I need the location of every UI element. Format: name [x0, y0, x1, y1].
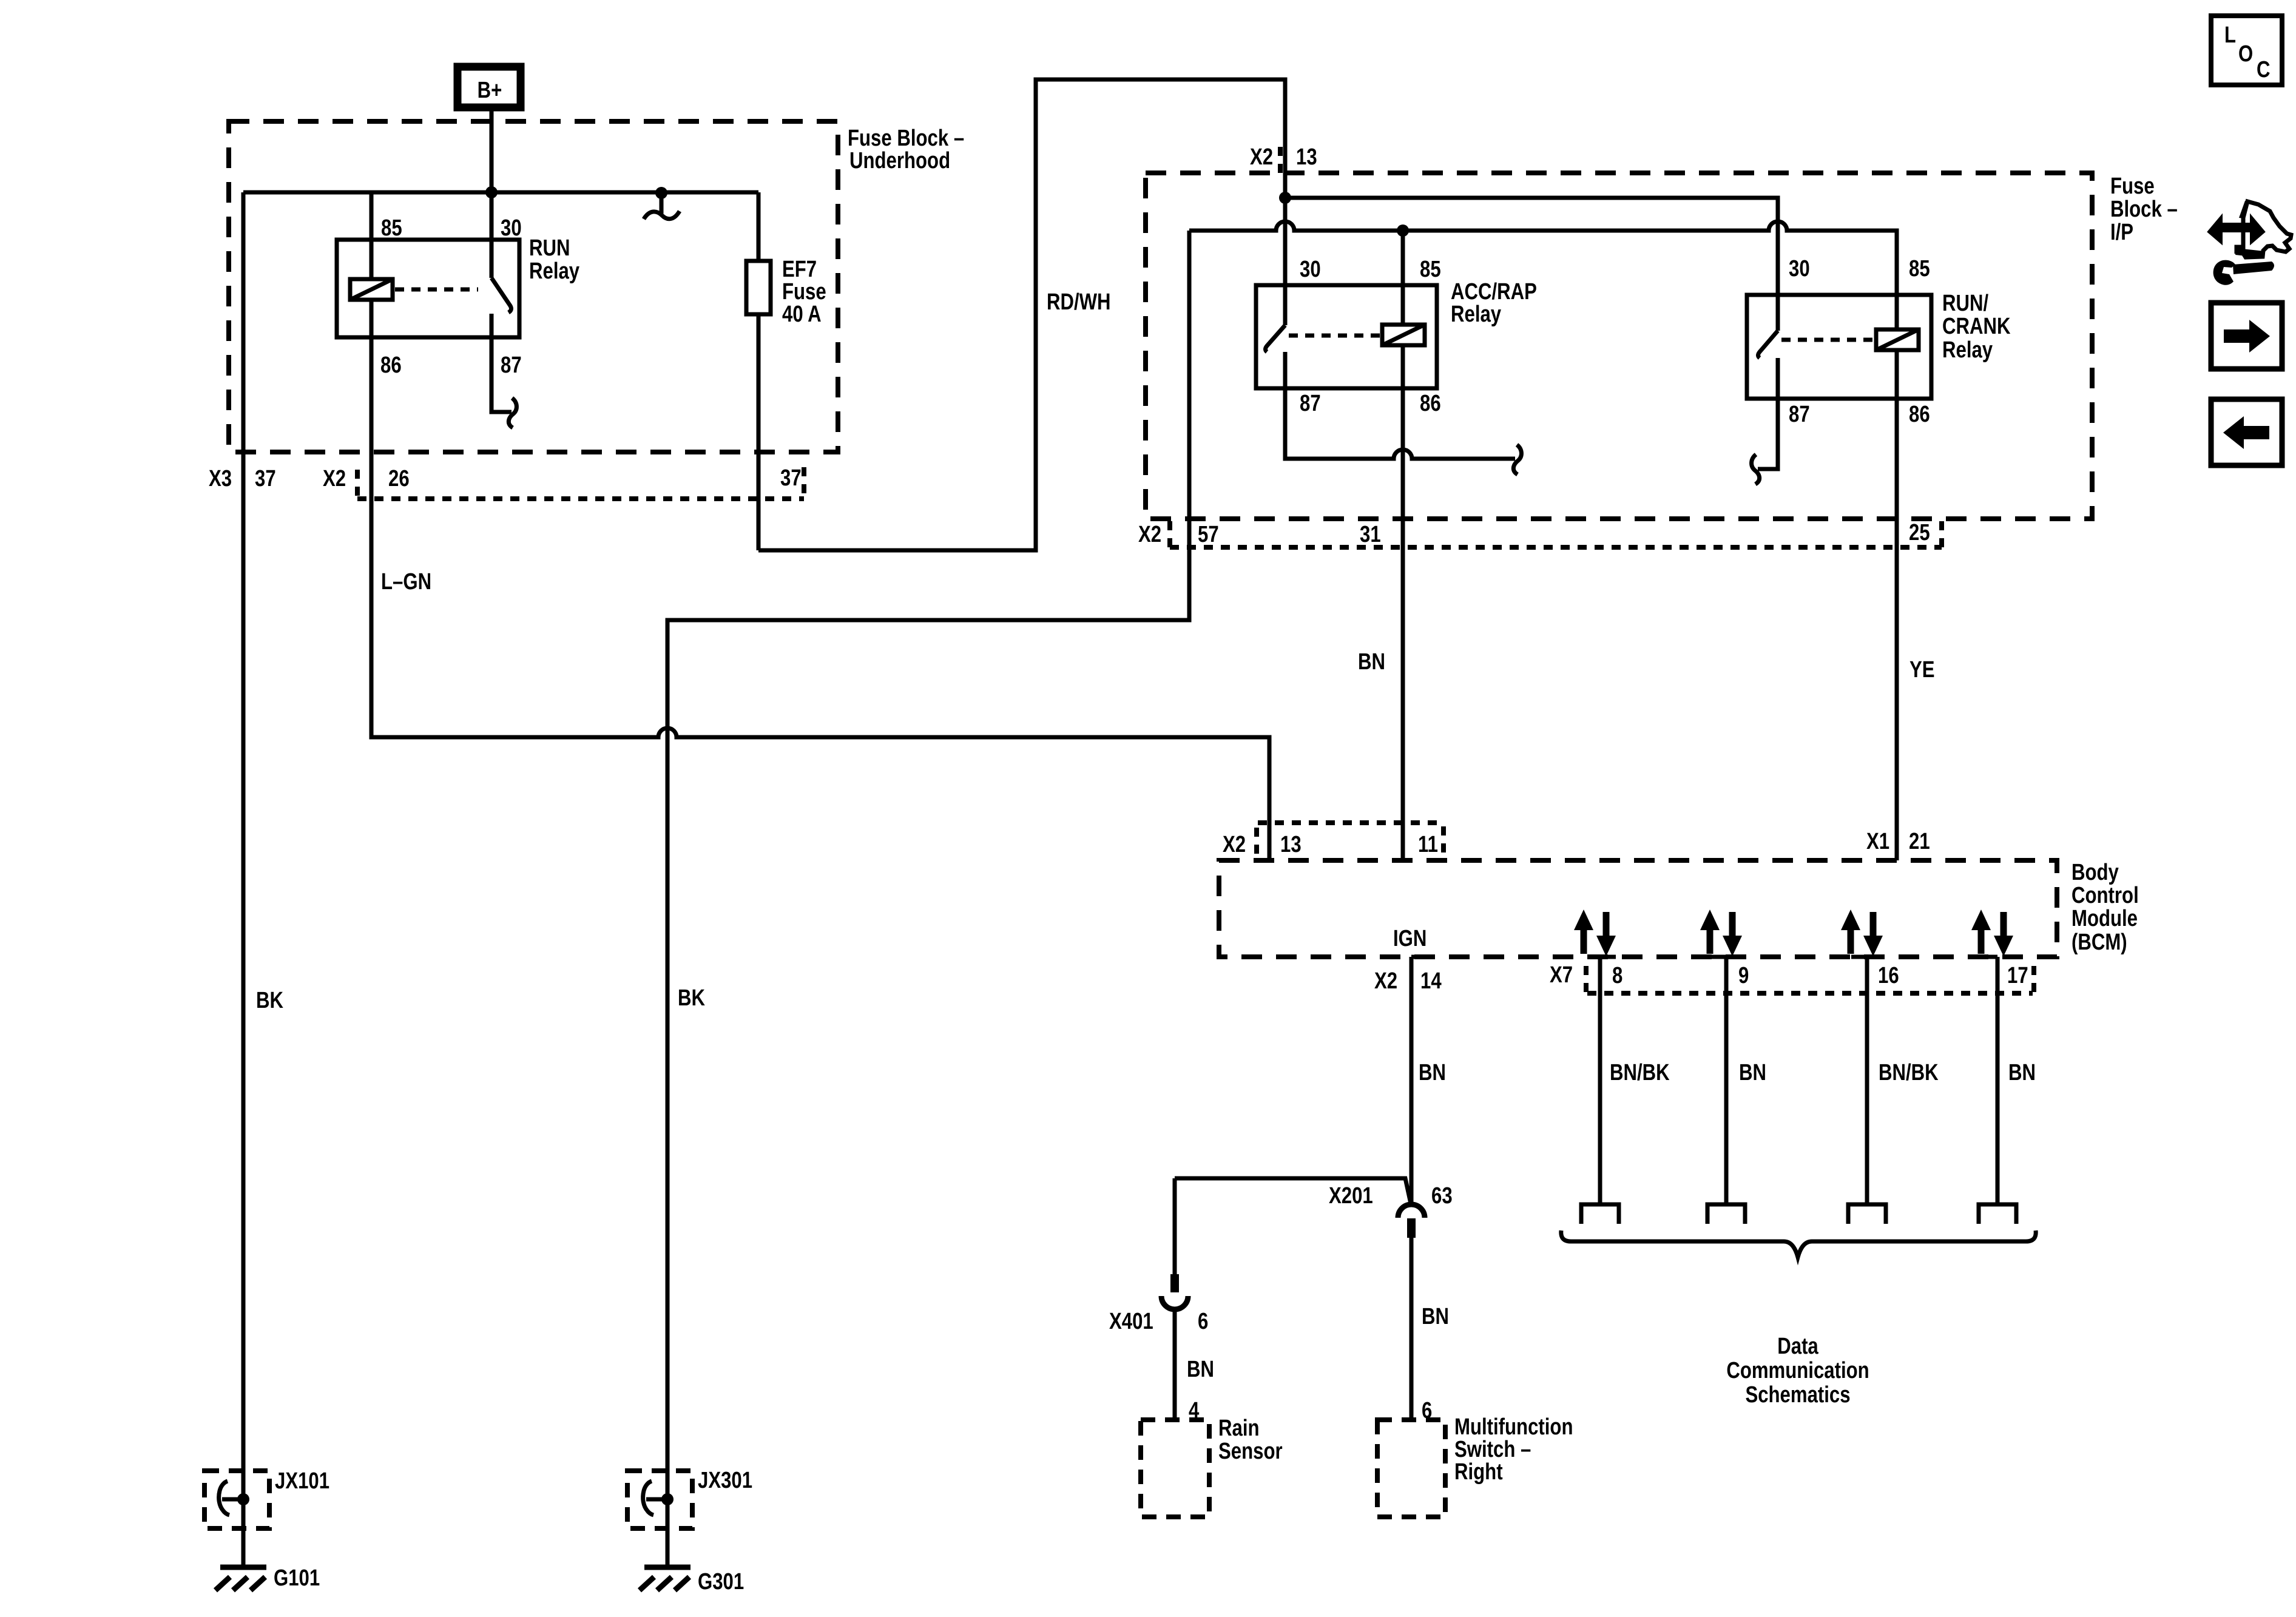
- terminal staple pin 17: [1979, 1204, 2016, 1224]
- svg-text:EF7: EF7: [782, 257, 817, 282]
- svg-text:X2: X2: [323, 466, 346, 491]
- svg-text:G301: G301: [698, 1569, 744, 1595]
- junction dot JX301: [661, 1493, 674, 1505]
- svg-text:C: C: [2257, 57, 2271, 83]
- svg-text:ACC/RAP: ACC/RAP: [1451, 279, 1537, 305]
- svg-text:Fuse: Fuse: [782, 279, 826, 305]
- svg-text:X1: X1: [1866, 829, 1889, 854]
- ground G301: [640, 1567, 690, 1590]
- wire bus B+ horizontal: [243, 191, 758, 195]
- svg-text:Relay: Relay: [1451, 302, 1502, 327]
- connector label X2 pin 57: [1138, 522, 1219, 547]
- svg-text:X2: X2: [1138, 522, 1161, 547]
- svg-text:Switch –: Switch –: [1454, 1437, 1531, 1462]
- connector X2 underhood dotted bracket: [357, 467, 804, 499]
- wire ACC relay pin 87 with hop and continuation curl: [1285, 352, 1521, 474]
- svg-text:BN: BN: [2008, 1060, 2036, 1085]
- component Rain Sensor dashed box: [1141, 1420, 1209, 1517]
- wire RUN/CRANK pin 87 with continuation curl: [1752, 358, 1778, 484]
- coil ACC/RAP relay: [1382, 325, 1425, 345]
- svg-text:CRANK: CRANK: [1942, 314, 2010, 339]
- svg-text:87: 87: [501, 353, 522, 378]
- svg-text:BN: BN: [1419, 1060, 1446, 1085]
- svg-text:85: 85: [381, 215, 402, 241]
- svg-text:B+: B+: [478, 78, 502, 103]
- legend LOC box: [2211, 16, 2282, 85]
- wire ACC relay pin 85: [1401, 231, 1405, 325]
- svg-text:30: 30: [1789, 256, 1810, 282]
- label ACC/RAP Relay: [1451, 279, 1537, 327]
- junction dot at B+ stem: [485, 186, 498, 198]
- wire branch down to X401: [1173, 1178, 1177, 1274]
- connector label X2 pin 26: [323, 466, 410, 491]
- svg-text:Communication: Communication: [1726, 1358, 1869, 1383]
- svg-text:16: 16: [1878, 963, 1899, 988]
- junction dot continuation tap: [655, 187, 667, 199]
- svg-text:87: 87: [1300, 391, 1321, 416]
- continuation tap stub and curl: [644, 193, 680, 219]
- splice clip JX101: [219, 1481, 241, 1515]
- junction dot JX101: [237, 1493, 249, 1505]
- connector label X2 pin 13 BCM: [1223, 832, 1302, 857]
- svg-text:26: 26: [388, 466, 410, 491]
- brace data communication group: [1561, 1230, 2036, 1257]
- fuse block IP dashed box: [1146, 173, 2092, 519]
- svg-text:Rain: Rain: [1218, 1416, 1260, 1441]
- svg-text:86: 86: [1909, 402, 1930, 427]
- svg-text:X401: X401: [1109, 1309, 1153, 1334]
- switch blade ACC/RAP relay: [1266, 325, 1286, 352]
- svg-text:21: 21: [1909, 829, 1930, 854]
- svg-text:17: 17: [2007, 963, 2028, 988]
- connector label X1 pin 21 BCM: [1866, 829, 1930, 854]
- svg-text:YE: YE: [1909, 657, 1935, 683]
- wire BCM X7 pin 8 with tick: [1600, 957, 1616, 1203]
- wire B+ feed down to junction: [490, 111, 494, 192]
- wire bus line2 inside IP with hops: [1189, 221, 1897, 329]
- svg-text:RUN/: RUN/: [1942, 291, 1988, 316]
- svg-text:85: 85: [1909, 256, 1930, 282]
- splice clip JX301: [643, 1481, 665, 1515]
- label RUN/CRANK Relay: [1942, 291, 2010, 363]
- switch blade RUN/CRANK relay: [1758, 331, 1778, 358]
- fuse block underhood dashed box: [229, 121, 838, 452]
- wire X201 to multifunction switch BN: [1410, 1238, 1414, 1420]
- svg-text:BN/BK: BN/BK: [1879, 1060, 1939, 1085]
- svg-text:57: 57: [1198, 522, 1219, 547]
- svg-text:(BCM): (BCM): [2071, 930, 2127, 955]
- label Multifunction Switch Right: [1454, 1414, 1573, 1485]
- relay RUN/CRANK dashed actuate link: [1781, 338, 1874, 342]
- relay RUN dashed actuate link: [395, 288, 478, 292]
- svg-text:8: 8: [1612, 963, 1622, 988]
- wire RUN relay pin 87 with continuation curl: [491, 314, 516, 428]
- svg-text:31: 31: [1360, 522, 1381, 547]
- svg-text:X201: X201: [1329, 1183, 1373, 1209]
- data arrows pair pin 9: [1700, 910, 1742, 956]
- svg-text:X7: X7: [1550, 962, 1573, 988]
- svg-text:86: 86: [1420, 391, 1441, 416]
- svg-text:Right: Right: [1454, 1459, 1503, 1485]
- svg-text:L–GN: L–GN: [381, 569, 431, 595]
- label RUN Relay: [529, 235, 580, 284]
- fuse EF7 40A: [746, 192, 771, 550]
- svg-text:87: 87: [1789, 402, 1810, 427]
- svg-text:30: 30: [1300, 257, 1321, 282]
- component Multifunction Switch Right dashed box: [1377, 1420, 1445, 1517]
- svg-text:RD/WH: RD/WH: [1047, 289, 1111, 315]
- connector label X2 pin 13 IP top: [1250, 144, 1317, 173]
- svg-text:6: 6: [1198, 1309, 1208, 1334]
- wire RUN relay pin 85: [370, 192, 374, 279]
- svg-text:IGN: IGN: [1393, 926, 1427, 951]
- relay ACC/RAP box: [1256, 285, 1437, 388]
- svg-text:13: 13: [1280, 832, 1302, 857]
- svg-text:X2: X2: [1374, 968, 1397, 994]
- connector X401 pin 6 inline: [1161, 1274, 1188, 1309]
- svg-text:BK: BK: [256, 988, 283, 1013]
- wire bus line1 inside IP: [1285, 198, 1778, 331]
- wire branch to rain sensor: [1175, 1178, 1411, 1206]
- svg-text:Fuse Block –: Fuse Block –: [848, 126, 964, 151]
- svg-text:13: 13: [1296, 144, 1317, 170]
- svg-text:Block –: Block –: [2110, 197, 2178, 222]
- label EF7 Fuse 40 A: [782, 257, 826, 327]
- svg-text:25: 25: [1909, 520, 1930, 545]
- svg-text:BN: BN: [1187, 1357, 1214, 1382]
- svg-text:14: 14: [1420, 968, 1442, 994]
- label Fuse Block - I/P: [2110, 174, 2178, 245]
- junction dot line1 at X2-13 entry: [1279, 192, 1291, 204]
- svg-text:63: 63: [1431, 1183, 1453, 1209]
- module BCM dashed box: [1219, 860, 2057, 957]
- svg-text:11: 11: [1418, 832, 1438, 857]
- connector X2 IP bottom dotted bracket: [1170, 521, 1942, 547]
- wire X401 to rain sensor BN: [1173, 1311, 1177, 1420]
- splice JX101 dashed box: [204, 1471, 269, 1528]
- coil RUN relay: [350, 279, 393, 300]
- svg-text:X2: X2: [1223, 832, 1246, 857]
- wire X2-57 to ground run with corner: [667, 231, 1189, 1567]
- svg-text:Body: Body: [2071, 860, 2119, 885]
- svg-text:X2: X2: [1250, 144, 1273, 170]
- terminal staple pin 16: [1848, 1204, 1886, 1224]
- wire RUN relay pin 86 L-GN with hop over X2-57 wire: [371, 300, 1269, 860]
- button arrow right: [2211, 303, 2282, 369]
- data arrows pair pin 16: [1841, 910, 1883, 956]
- svg-text:85: 85: [1420, 257, 1441, 282]
- svg-text:Underhood: Underhood: [849, 148, 950, 174]
- svg-text:Control: Control: [2071, 883, 2139, 908]
- connector label X2 pin 14 BCM bottom: [1374, 957, 1442, 994]
- svg-text:Relay: Relay: [529, 258, 580, 284]
- svg-text:37: 37: [255, 466, 276, 491]
- svg-text:RUN: RUN: [529, 235, 570, 261]
- svg-text:Relay: Relay: [1942, 337, 1993, 363]
- svg-text:Multifunction: Multifunction: [1454, 1414, 1573, 1440]
- power symbol B+: [458, 67, 521, 107]
- connector X2 BCM top dotted bracket: [1257, 823, 1444, 854]
- svg-text:40 A: 40 A: [782, 302, 822, 327]
- data arrows pair pin 17: [1971, 910, 2013, 956]
- svg-text:BN/BK: BN/BK: [1610, 1060, 1670, 1085]
- icon diagnostic wrench with double arrow: [2209, 201, 2291, 285]
- label Body Control Module BCM: [2071, 860, 2139, 955]
- connector X201 pin 63 inline: [1398, 1204, 1425, 1238]
- svg-text:BN: BN: [1422, 1304, 1449, 1329]
- svg-text:BN: BN: [1358, 649, 1385, 675]
- svg-text:86: 86: [380, 353, 402, 378]
- wire BCM X7 pin 16 with tick: [1851, 957, 1867, 1203]
- wire ACC relay pin 30: [1283, 198, 1288, 325]
- svg-text:Sensor: Sensor: [1218, 1439, 1283, 1464]
- wire RUN/CRANK pin 86 YE down to BCM: [1895, 350, 1899, 860]
- terminal staple pin 8: [1581, 1204, 1619, 1224]
- svg-text:BN: BN: [1739, 1060, 1766, 1085]
- svg-text:L: L: [2224, 22, 2236, 48]
- svg-text:Data: Data: [1777, 1334, 1818, 1359]
- splice JX301 dashed box: [627, 1471, 692, 1528]
- svg-text:Fuse: Fuse: [2110, 174, 2155, 199]
- wire IGN output X2-14 BN: [1410, 957, 1414, 1206]
- svg-text:X3: X3: [209, 466, 232, 491]
- wire X3-37 BK branch down left: [241, 192, 246, 1567]
- wire ACC relay pin 86 BN down to BCM: [1401, 345, 1405, 860]
- button arrow left: [2211, 399, 2282, 465]
- relay RUN/CRANK box: [1747, 295, 1931, 399]
- ground G101: [215, 1567, 266, 1590]
- svg-text:9: 9: [1738, 963, 1749, 988]
- relay ACC/RAP dashed actuate link: [1289, 334, 1380, 338]
- svg-text:BK: BK: [678, 985, 705, 1011]
- coil RUN/CRANK relay: [1876, 329, 1919, 350]
- connector label X3 pin 37: [209, 466, 276, 491]
- wire BCM X7 pin 9 with tick: [1710, 957, 1726, 1203]
- relay RUN Relay box: [337, 240, 519, 337]
- svg-text:I/P: I/P: [2110, 220, 2133, 245]
- svg-text:37: 37: [780, 465, 802, 491]
- label Data Communication Schematics: [1726, 1334, 1869, 1408]
- svg-text:O: O: [2238, 41, 2253, 67]
- svg-text:Schematics: Schematics: [1745, 1382, 1850, 1408]
- wire BCM X7 pin 17 with tick: [1982, 957, 1997, 1203]
- data arrows pair pin 8: [1574, 910, 1616, 956]
- svg-text:JX101: JX101: [275, 1468, 329, 1494]
- junction dot line2 at ACC relay 85: [1397, 224, 1409, 237]
- wire RD/WH routing to fuse block IP: [758, 79, 1285, 550]
- label Rain Sensor: [1218, 1416, 1283, 1464]
- svg-text:30: 30: [501, 215, 522, 241]
- label Fuse Block - Underhood: [848, 126, 964, 174]
- switch blade RUN relay: [491, 278, 511, 312]
- terminal staple pin 9: [1707, 1204, 1745, 1224]
- svg-text:JX301: JX301: [698, 1468, 752, 1493]
- svg-text:G101: G101: [274, 1565, 320, 1591]
- connector X7 BCM dotted bracket: [1586, 966, 2034, 993]
- wire RUN relay pin 30: [490, 192, 494, 278]
- svg-text:Module: Module: [2071, 906, 2138, 931]
